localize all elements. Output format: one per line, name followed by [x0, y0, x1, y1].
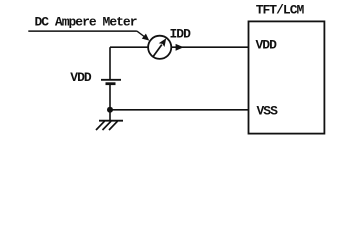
svg-text:VSS: VSS [257, 103, 279, 118]
svg-text:VDD: VDD [70, 70, 92, 85]
svg-text:TFT/LCM: TFT/LCM [256, 3, 305, 18]
svg-text:DC Ampere Meter: DC Ampere Meter [35, 15, 137, 30]
svg-text:IDD: IDD [170, 27, 192, 42]
svg-text:VDD: VDD [256, 38, 278, 53]
